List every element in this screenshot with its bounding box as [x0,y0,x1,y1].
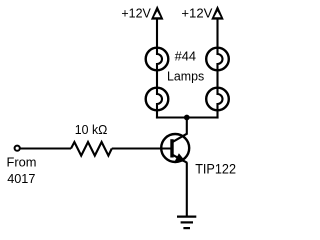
svg-text:Lamps: Lamps [167,68,205,83]
wire: lamp L2 to bus [156,110,158,119]
resistor R1 10k [71,142,112,156]
wire: right +12V to lamp L3 [216,19,218,49]
svg-text:4017: 4017 [7,171,35,186]
junction dot at collector node [184,115,190,121]
transistor Q1 TIP122 (NPN) [161,134,189,163]
lamp L2 (lower left) [146,88,169,111]
svg-text:10 kΩ: 10 kΩ [75,122,108,137]
wire: lamp L3 to lamp L4 [216,70,218,89]
wire: junction to collector [186,118,188,135]
wire: left +12V to lamp L1 [156,19,158,49]
lamp L3 (upper right) [206,48,229,71]
power symbol +12V right rail [211,6,224,20]
svg-text:+12V: +12V [121,6,151,21]
power symbol +12V left rail [151,6,164,20]
svg-text:From: From [7,154,37,169]
svg-text:TIP122: TIP122 [195,160,236,176]
lamp L4 (lower right) [206,88,229,111]
lamp L1 (upper left) [146,48,169,71]
wire: lamp L1 to lamp L2 [156,70,158,89]
svg-text:+12V: +12V [181,6,212,21]
wire: input terminal to resistor R1 [20,147,71,149]
input terminal circle (from 4017) [15,146,20,151]
wire: lamp L4 to bus [216,110,218,119]
wire: bus connecting both lamp branches [156,116,219,118]
svg-text:#44: #44 [175,48,196,63]
wire: emitter to ground [186,162,188,215]
ground symbol [177,217,196,229]
wire: resistor R1 to transistor base [112,147,172,149]
